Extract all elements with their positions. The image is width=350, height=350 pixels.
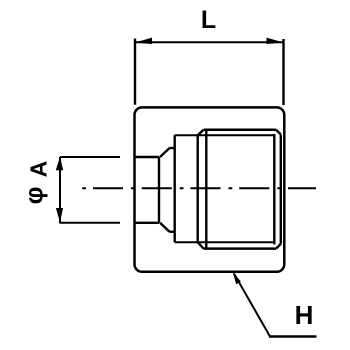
thread lead-in chamfer bottom [198, 242, 204, 248]
dimension L extension line left [134, 39, 136, 105]
cone bottom diagonal [160, 223, 170, 232]
dimension L line [135, 41, 284, 43]
phiA dimension line [59, 157, 61, 223]
phiA arrow up [56, 157, 63, 170]
small cylinder end vertical [158, 157, 160, 223]
mid cylinder end vertical [196, 135, 198, 242]
leader H horizontal tail [269, 335, 317, 337]
dimension L arrow right [267, 38, 285, 44]
svg-text:H: H [295, 300, 314, 330]
centerline [76, 187, 316, 189]
svg-text:φ: φ [21, 186, 49, 204]
dimension L extension line right [282, 39, 284, 105]
flange bottom line [170, 231, 175, 233]
flange top line [170, 147, 175, 149]
thread minor top line [175, 134, 275, 136]
leader H arrowhead [233, 272, 241, 284]
end face vertical [280, 135, 282, 244]
svg-text:L: L [201, 6, 216, 34]
thread major bottom line [204, 247, 277, 250]
phiA extension line bottom [60, 222, 120, 224]
flange rear vertical [173, 135, 175, 242]
end chamfer top diagonal [276, 130, 281, 135]
body outline (nut silhouette rounded rect) [135, 107, 285, 271]
thread start vertical [205, 130, 207, 249]
cone top diagonal [160, 148, 170, 157]
end chamfer bottom diagonal [276, 244, 281, 249]
phiA arrow down [56, 208, 63, 223]
dimension L arrow left [135, 38, 153, 44]
leader H diagonal line [234, 274, 270, 337]
thread minor bottom line [175, 241, 275, 243]
small cylinder bottom line [135, 222, 160, 224]
small cylinder top line [135, 156, 160, 158]
svg-text:A: A [26, 161, 52, 178]
thread end chamfer circle vertical [273, 134, 275, 244]
thread major top line [204, 129, 277, 132]
thread lead-in chamfer top [198, 130, 204, 135]
phiA extension line top [60, 156, 120, 158]
